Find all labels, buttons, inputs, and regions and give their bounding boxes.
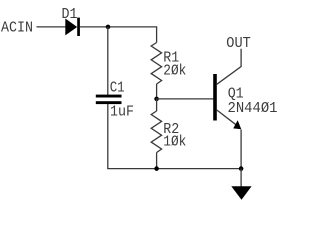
wire ground lead [240,169,242,187]
wire [156,153,158,169]
svg-text:1uF: 1uF [110,104,134,121]
wire emitter [217,110,238,126]
svg-text:C1: C1 [110,80,125,97]
capacitor C1 [96,95,122,105]
wire [37,26,66,28]
wire [107,27,109,95]
wire [240,130,242,169]
transistor Q1 body bar [213,74,217,121]
svg-text:1Øk: 1Øk [163,133,186,150]
wire [107,104,109,169]
resistor R1 [151,43,161,85]
diode D1 [65,18,80,36]
wire [156,84,158,99]
junction node C [154,166,159,171]
svg-text:D1: D1 [62,6,78,23]
svg-text:OUT: OUT [226,35,251,52]
emitter arrowhead [233,120,241,129]
wire collector [217,49,241,85]
svg-text:2Øk: 2Øk [163,63,186,80]
svg-text:ACIN: ACIN [1,19,33,36]
junction node A [106,25,111,30]
svg-text:2N44Ø1: 2N44Ø1 [228,100,278,117]
junction node B [154,97,159,102]
junction node D [239,166,244,171]
resistor R2 [151,111,161,153]
wire [80,27,157,43]
wire [156,99,158,111]
wire bottom rail [107,168,241,170]
ground [231,186,251,200]
wire base [157,98,214,100]
